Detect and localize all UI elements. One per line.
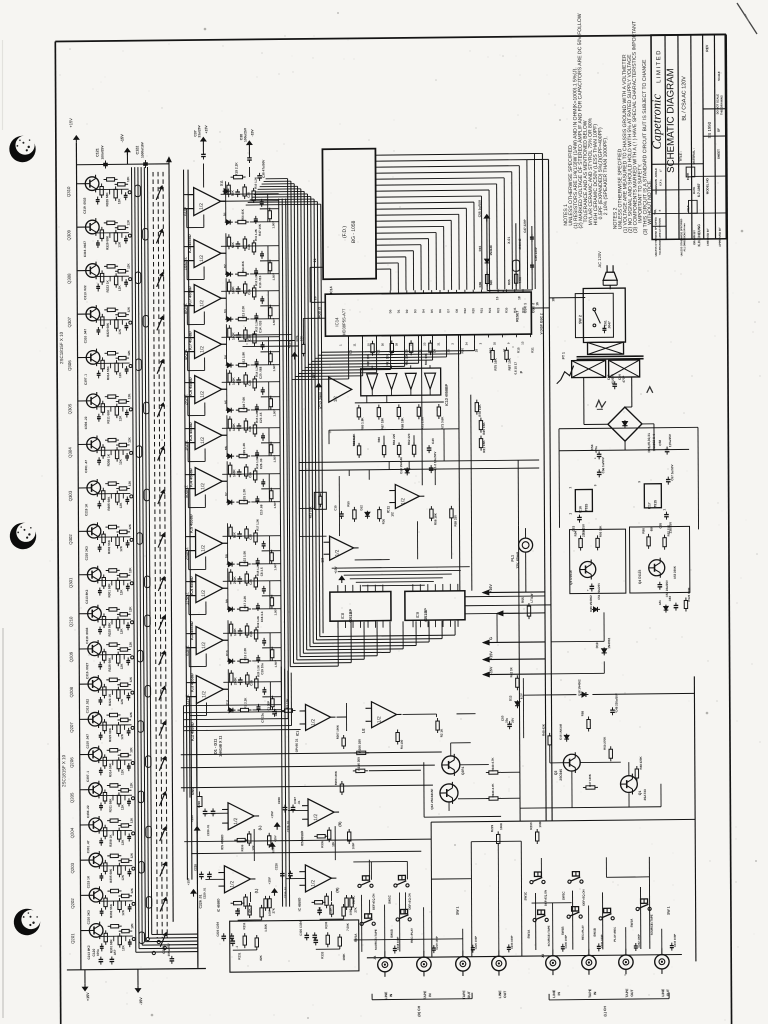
- tone caps 1: [292, 805, 294, 808]
- wire IC1 row: [184, 729, 301, 730]
- svg-text:R31: R31: [513, 307, 517, 313]
- transistor Q208: [88, 677, 102, 691]
- resistor R94: [580, 536, 582, 539]
- capacitor C60: [614, 381, 616, 384]
- svg-text:(F.D.): (F.D.): [342, 226, 348, 239]
- svg-text:12K: 12K: [120, 698, 124, 705]
- svg-text:12K: 12K: [121, 874, 125, 881]
- svg-text:SCHEMATIC DIAGRAM: SCHEMATIC DIAGRAM: [665, 68, 677, 173]
- svg-text:X.X ±: X.X ±: [658, 179, 662, 186]
- resistor R206: [354, 752, 357, 754]
- slide pot row Q307: [143, 315, 148, 327]
- svg-text:FILE: FILE: [686, 205, 690, 211]
- svg-text:12K: 12K: [128, 567, 132, 573]
- svg-text:C228: C228: [274, 863, 278, 870]
- crystal X-01: [515, 223, 517, 290]
- svg-text:1.50V: 1.50V: [273, 563, 277, 570]
- svg-text:4051BP: 4051BP: [348, 609, 353, 623]
- slider arrow Q306: [157, 360, 163, 374]
- svg-text:Q203: Q203: [70, 862, 75, 873]
- svg-text:2SC1815F X 10: 2SC1815F X 10: [61, 754, 66, 787]
- svg-text:SOURCE=TAPE: SOURCE=TAPE: [547, 925, 551, 946]
- svg-text:100P: 100P: [351, 843, 355, 850]
- svg-text:SS 1990: SS 1990: [707, 121, 712, 138]
- svg-text:R2 1K: R2 1K: [440, 728, 444, 737]
- svg-text:R11 1.2K: R11 1.2K: [254, 229, 258, 241]
- svg-text:12K: 12K: [120, 733, 124, 740]
- svg-text:Q1: Q1: [638, 791, 642, 796]
- components row Q208: [103, 684, 105, 687]
- svg-text:IC8: IC8: [340, 612, 345, 619]
- svg-text:+15V: +15V: [190, 815, 194, 822]
- svg-text:C216 3K3: C216 3K3: [87, 910, 91, 924]
- feedback wire 1KHZ: [185, 428, 195, 430]
- svg-text:12K: 12K: [130, 922, 134, 928]
- svg-text:12K: 12K: [128, 480, 132, 486]
- svg-text:Q303: Q303: [68, 490, 73, 501]
- svg-text:Q309: Q309: [66, 229, 71, 240]
- svg-text:C26: C26: [249, 680, 253, 686]
- svg-text:100u: 100u: [96, 949, 100, 956]
- svg-text:IC 4558D: IC 4558D: [298, 897, 302, 911]
- svg-text:D6: D6: [438, 309, 442, 313]
- svg-text:470u: 470u: [594, 446, 598, 453]
- svg-text:R13 22K: R13 22K: [308, 506, 312, 519]
- svg-text:LT/1W: LT/1W: [530, 593, 534, 602]
- slide pot row Q301: [145, 576, 150, 588]
- svg-text:R335: R335: [240, 844, 244, 851]
- svg-text:IC1: IC1: [296, 731, 300, 736]
- wire top cluster: [202, 163, 204, 187]
- svg-text:CHECKED BY: CHECKED BY: [706, 228, 710, 246]
- svg-text:C319 .0033: C319 .0033: [85, 627, 89, 643]
- svg-text:1/2: 1/2: [201, 590, 207, 597]
- feedback wire 500HZ: [185, 474, 195, 476]
- op-amp tone (L) 2: [224, 866, 250, 893]
- svg-text:R62 220: R62 220: [407, 433, 411, 445]
- svg-text:1/2: 1/2: [335, 549, 341, 556]
- components row Q310: [101, 184, 103, 187]
- svg-text:+15V: +15V: [267, 877, 271, 884]
- switch SW1C 0: [358, 884, 361, 887]
- svg-text:ANGLE: ANGLE: [654, 168, 658, 178]
- slide pot row Q303: [144, 489, 149, 501]
- handwritten squiggle 1: [596, 400, 606, 407]
- svg-text:100u/25V: 100u/25V: [100, 145, 104, 160]
- svg-text:23: 23: [422, 342, 426, 346]
- wire mid extra: [299, 460, 539, 462]
- svg-text:.01: .01: [297, 800, 301, 804]
- svg-text:Q306: Q306: [67, 360, 72, 371]
- capacitor C38: [248, 141, 250, 148]
- diode D14: [406, 467, 408, 475]
- bus bottom contacts: [146, 937, 149, 940]
- capacitor C37: [202, 137, 204, 144]
- svg-text:IC5 4558D: IC5 4558D: [300, 830, 304, 846]
- svg-text:100K: 100K: [232, 377, 236, 385]
- transistor Q201: [89, 924, 103, 938]
- svg-text:C23 .15: C23 .15: [259, 412, 263, 423]
- resistors R80-R83: [371, 341, 373, 344]
- svg-text:R236 350: R236 350: [357, 757, 361, 771]
- punch hole blob 2: [8, 518, 41, 551]
- resistor R49: [549, 733, 551, 736]
- svg-text:C219 1K: C219 1K: [84, 503, 88, 516]
- svg-text:12K: 12K: [120, 769, 124, 776]
- svg-text:IC14: IC14: [334, 317, 339, 327]
- wire base Q202: [81, 894, 90, 896]
- svg-text:R308 1K: R308 1K: [109, 834, 113, 847]
- slide pot row Q210: [145, 615, 150, 627]
- svg-text:1/2: 1/2: [390, 512, 394, 517]
- wire C226 vertical: [196, 702, 197, 969]
- slide pot row Q302: [137, 533, 142, 545]
- components row Q201: [105, 930, 107, 933]
- feedback wire 16KHZ: [184, 246, 194, 248]
- tone resistors 3: [326, 893, 328, 896]
- transistor Q11: [442, 756, 460, 774]
- svg-text:R94: R94: [574, 531, 578, 537]
- border frame: [55, 35, 726, 42]
- svg-text:1.50V: 1.50V: [271, 221, 275, 228]
- svg-text:R30: R30: [381, 519, 385, 525]
- tone resistors 2: [245, 894, 247, 897]
- slide pot row Q207: [138, 721, 143, 733]
- capacitor C1-2: [430, 465, 432, 468]
- slide pot row Q202: [146, 897, 151, 909]
- svg-text:C121: C121: [95, 148, 99, 157]
- svg-text:12K: 12K: [127, 263, 131, 269]
- svg-text:Q207: Q207: [69, 722, 74, 733]
- slide pot row Q306: [136, 359, 141, 371]
- svg-text:1/2: 1/2: [313, 814, 319, 821]
- supply terminals: [483, 591, 545, 594]
- svg-text:PL1: PL1: [511, 555, 515, 562]
- wire base Q210: [79, 613, 88, 615]
- op-amp IC12 2900: [329, 377, 352, 402]
- svg-text:22u: 22u: [505, 718, 509, 723]
- svg-text:D3: D3: [413, 309, 417, 313]
- slide pot row Q206: [146, 756, 151, 768]
- feedback wire 2KHZ: [185, 382, 195, 384]
- transistor Q301: [87, 568, 101, 582]
- svg-text:R47 120K: R47 120K: [588, 774, 592, 787]
- IC8 4051BP: [330, 592, 391, 622]
- svg-text:12K: 12K: [129, 711, 133, 717]
- svg-text:56K: 56K: [231, 190, 235, 197]
- svg-text:C36 47u/50V: C36 47u/50V: [261, 159, 265, 178]
- capacitor C120: [100, 957, 102, 960]
- slide pot row Q204: [146, 826, 151, 838]
- capacitor C122: [144, 160, 146, 163]
- bottom ground wire: [67, 968, 206, 969]
- svg-text:SW1C: SW1C: [388, 894, 392, 904]
- wire mid verticals: [420, 335, 423, 485]
- svg-text:1.50K: 1.50K: [264, 923, 268, 932]
- svg-text:C230 100P: C230 100P: [564, 935, 568, 949]
- svg-text:D12: D12: [359, 505, 363, 511]
- svg-text:DEF=EQ.ON: DEF=EQ.ON: [582, 889, 586, 905]
- svg-text:R19 2.2K: R19 2.2K: [234, 162, 238, 176]
- svg-text:K.H.CHEUNG: K.H.CHEUNG: [697, 224, 701, 247]
- svg-text:D7: D7: [446, 309, 450, 313]
- svg-text:1/2: 1/2: [333, 395, 338, 402]
- slider arrow Q209: [159, 651, 165, 665]
- svg-text:C14 .033: C14 .033: [258, 320, 262, 333]
- slide pot row Q203: [139, 862, 144, 874]
- diode D11: [223, 190, 231, 192]
- feedback wire 8KHZ: [184, 291, 194, 293]
- svg-text:IC16: IC16: [578, 506, 582, 513]
- svg-text:R22 1.5K: R22 1.5K: [243, 550, 247, 564]
- capacitor C1: [273, 709, 275, 712]
- slider arrow Q207: [159, 721, 165, 735]
- svg-text:1.50V: 1.50V: [273, 455, 277, 462]
- svg-text:12K: 12K: [126, 176, 130, 182]
- svg-text:C304 .22: C304 .22: [86, 805, 90, 818]
- svg-text:C229 .01: C229 .01: [286, 820, 290, 832]
- transformer secondary: [572, 360, 606, 377]
- svg-text:IC4 4558D: IC4 4558D: [189, 576, 194, 595]
- svg-text:DRAWN BY: DRAWN BY: [692, 230, 696, 245]
- svg-text:DATE: DATE: [692, 187, 696, 194]
- feedback wire 63HZ: [186, 633, 196, 635]
- IC13 buffers: [367, 374, 378, 390]
- svg-text:R30: R30: [504, 307, 508, 313]
- svg-text:C26: C26: [248, 472, 252, 478]
- svg-text:(R): (R): [338, 821, 342, 827]
- svg-text:R96: R96: [478, 281, 482, 287]
- svg-text:MATERIAL :: MATERIAL :: [692, 148, 696, 165]
- svg-text:12K: 12K: [129, 782, 133, 788]
- svg-text:0.6 15 17: 0.6 15 17: [514, 362, 518, 375]
- svg-text:C229 .01: C229 .01: [202, 887, 206, 899]
- resistor R2: [437, 718, 439, 721]
- svg-text:SW 1: SW 1: [456, 907, 460, 916]
- svg-text:R229: R229: [490, 825, 494, 833]
- svg-text:R314 56K: R314 56K: [106, 365, 110, 380]
- IC14 HD38P5S-A77: [325, 292, 531, 336]
- block Q3 outline: [570, 529, 626, 594]
- svg-text:REC=PLAY: REC=PLAY: [410, 928, 414, 943]
- svg-text:C10 .68: C10 .68: [259, 504, 263, 515]
- svg-text:C26: C26: [249, 631, 253, 637]
- svg-text:R208 100K: R208 100K: [334, 771, 338, 785]
- svg-text:25V: 25V: [511, 718, 515, 723]
- wire base Q310: [77, 183, 86, 185]
- svg-text:DEF=EQ.ON: DEF=EQ.ON: [372, 894, 376, 910]
- svg-text:R20 1.2K: R20 1.2K: [256, 665, 260, 677]
- svg-text:C19 10u: C19 10u: [260, 663, 264, 675]
- svg-text:56K: 56K: [231, 242, 235, 249]
- capacitor C51: [591, 583, 593, 586]
- svg-text:1N4148: 1N4148: [489, 245, 493, 256]
- svg-text:1.50V: 1.50V: [274, 660, 278, 667]
- resistor R19: [231, 176, 234, 178]
- svg-text:C213 8K2: C213 8K2: [85, 589, 89, 603]
- svg-text:±°: ±°: [658, 169, 662, 172]
- wire base Q205: [80, 789, 89, 791]
- svg-text:1.50V: 1.50V: [273, 608, 277, 615]
- svg-text:R10 1.2K: R10 1.2K: [254, 177, 258, 189]
- svg-text:C1 20P: C1 20P: [266, 701, 270, 711]
- svg-text:TAPE: TAPE: [462, 990, 466, 1000]
- svg-text:R19 1.2K: R19 1.2K: [256, 616, 260, 628]
- IC13 4058BP buffer box: [361, 368, 441, 396]
- svg-text:A52 220K: A52 220K: [673, 565, 677, 579]
- wire bundle C-shape: [288, 179, 291, 667]
- capacitor C56: [598, 469, 600, 472]
- svg-text:R71 1.8K: R71 1.8K: [420, 416, 424, 430]
- svg-text:A51: A51: [658, 600, 662, 606]
- svg-text:Q208: Q208: [69, 686, 74, 697]
- svg-text:(L): (L): [254, 888, 258, 893]
- svg-text:12K: 12K: [129, 676, 133, 682]
- components row Q207: [104, 719, 106, 722]
- svg-text:C310 .047: C310 .047: [86, 734, 90, 749]
- capacitor C48: [612, 707, 614, 710]
- svg-text:1N4002 X 4: 1N4002 X 4: [652, 434, 656, 451]
- svg-text:IC5 4558D: IC5 4558D: [220, 834, 224, 850]
- svg-text:1/2: 1/2: [199, 346, 205, 353]
- resistors R65-R73: [358, 405, 360, 408]
- svg-text:REC=PLAY: REC=PLAY: [581, 925, 585, 940]
- svg-text:D16 1N4148: D16 1N4148: [559, 723, 563, 739]
- bottom box: [230, 920, 359, 972]
- svg-text:G: G: [489, 637, 493, 640]
- svg-text:1/2: 1/2: [400, 498, 406, 505]
- cluster C63: [675, 603, 677, 606]
- svg-text:IC12 2900: IC12 2900: [319, 392, 323, 409]
- capacitor C222: [171, 956, 173, 959]
- svg-text:R28 7.6K: R28 7.6K: [242, 396, 246, 410]
- svg-text:IC13 4058BP: IC13 4058BP: [445, 383, 449, 406]
- capacitor C53: [578, 515, 580, 518]
- svg-text:11: 11: [352, 343, 356, 346]
- svg-text:IC14: IC14: [329, 286, 333, 293]
- svg-text:R80 10K: R80 10K: [366, 353, 370, 366]
- svg-text:C316 .0027: C316 .0027: [85, 663, 89, 679]
- svg-text:C229 .01: C229 .01: [206, 824, 210, 836]
- wire q pair: [460, 764, 489, 766]
- resistor R240a: [486, 772, 489, 774]
- resistor R88: [588, 716, 590, 719]
- svg-text:R88: R88: [581, 710, 585, 716]
- svg-text:15: 15: [495, 296, 499, 300]
- svg-text:R231: R231: [237, 952, 241, 959]
- svg-text:Q12 2SC1815F: Q12 2SC1815F: [430, 788, 434, 809]
- svg-text:R95 10K: R95 10K: [599, 525, 603, 537]
- resistor R4: [397, 729, 399, 732]
- slider arrow Q305: [157, 403, 163, 417]
- svg-text:TOL: TOL: [653, 209, 657, 215]
- svg-text:C47 220P: C47 220P: [523, 219, 527, 232]
- svg-text:13: 13: [520, 341, 524, 345]
- svg-text:LINE: LINE: [552, 989, 556, 998]
- svg-text:12K: 12K: [118, 285, 122, 292]
- svg-text:SW1C: SW1C: [562, 891, 566, 901]
- op-amp IC4 4558D 250HZ: [196, 529, 223, 557]
- switch SW1C 5: [568, 880, 571, 883]
- svg-text:D5: D5: [430, 309, 434, 313]
- transistor Q305: [86, 394, 100, 408]
- slide pot row Q205: [138, 791, 143, 803]
- svg-text:1.50V: 1.50V: [272, 364, 276, 371]
- svg-text:C313 .022: C313 .022: [85, 699, 89, 714]
- svg-text:3.3K: 3.3K: [582, 528, 586, 535]
- svg-text:Q308: Q308: [67, 273, 72, 284]
- svg-text:(R) CH: (R) CH: [417, 1005, 421, 1016]
- svg-text:R33: R33: [521, 307, 525, 313]
- cluster D12: [366, 511, 368, 519]
- svg-text:Q4 D1115: Q4 D1115: [638, 570, 642, 585]
- svg-text:C301 .47: C301 .47: [84, 460, 88, 473]
- svg-text:100K: 100K: [232, 469, 236, 477]
- op-amp IC6 4558D AUD: [194, 187, 221, 215]
- resistor R207: [343, 735, 345, 738]
- cluster R233: [331, 902, 333, 905]
- transistor Q4: [649, 560, 665, 576]
- transistor Q3: [580, 561, 596, 577]
- svg-text:R15 1.2K: R15 1.2K: [255, 411, 259, 423]
- svg-text:SHEET: SHEET: [717, 149, 721, 159]
- bus rails: [279, 199, 283, 907]
- op-amp IC5 4558D 500HZ: [195, 467, 222, 495]
- svg-text:100K: 100K: [538, 820, 542, 828]
- switch SW1C 4: [530, 880, 533, 883]
- svg-text:180K: 180K: [342, 953, 346, 961]
- section top wire: [431, 819, 695, 822]
- svg-text:C55: C55: [658, 523, 662, 529]
- rc network 1KHZ: [229, 416, 231, 419]
- svg-text:56K: 56K: [489, 279, 493, 285]
- svg-text:UNLESS OTHERWISE SPECIFIED: UNLESS OTHERWISE SPECIFIED: [655, 217, 658, 257]
- svg-text:R50 270K: R50 270K: [603, 736, 607, 750]
- regulator block outline: [559, 449, 689, 450]
- switch SW1C 1: [394, 884, 397, 887]
- svg-text:TITLE :: TITLE :: [679, 151, 683, 161]
- svg-text:R61 220: R61 220: [392, 433, 396, 445]
- svg-text:R305 68K: R305 68K: [109, 868, 113, 883]
- svg-text:SW1B: SW1B: [561, 926, 565, 936]
- svg-text:MODEL NO: MODEL NO: [705, 177, 709, 194]
- svg-text:1.50V: 1.50V: [272, 273, 276, 280]
- wire base Q302: [79, 530, 88, 532]
- svg-text:PLAY=REC: PLAY=REC: [613, 927, 617, 942]
- components row Q308: [101, 270, 103, 273]
- slide pot row Q310: [135, 185, 140, 197]
- svg-text:R320 68K: R320 68K: [108, 727, 112, 742]
- power switch box: [583, 288, 625, 342]
- op-amp IC1a: [305, 704, 330, 730]
- svg-text:J 1: J 1: [373, 955, 377, 960]
- svg-text:SCALE: SCALE: [717, 71, 721, 81]
- svg-text:100K: 100K: [499, 822, 503, 830]
- transistor Q12: [440, 784, 458, 802]
- transistor Q203: [89, 853, 103, 867]
- slide pot row Q304: [136, 446, 141, 458]
- svg-text:C40: C40: [431, 438, 435, 444]
- wire base Q203: [80, 859, 89, 861]
- diode D18: [580, 693, 588, 695]
- svg-text:IC11: IC11: [386, 506, 390, 513]
- svg-text:100u/25V: 100u/25V: [243, 127, 247, 142]
- transistor Q307: [86, 307, 100, 321]
- svg-text:C325 C324: C325 C324: [299, 921, 303, 936]
- transistor Q309: [85, 220, 99, 234]
- svg-text:THIS DRAWING: THIS DRAWING: [719, 95, 723, 115]
- svg-text:LINE: LINE: [384, 991, 388, 1000]
